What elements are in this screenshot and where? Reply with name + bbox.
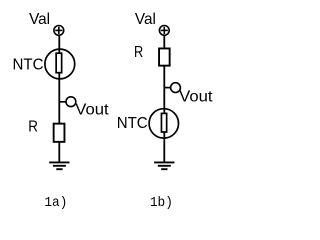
svg-text:Vout: Vout [75,102,109,119]
supply terminal + (circuit 1b) [159,26,169,36]
svg-text:R: R [28,119,38,136]
ground symbol (circuit 1b) [154,162,174,169]
svg-text:1a): 1a) [44,195,67,211]
supply terminal + (circuit 1a) [54,26,64,36]
wire NTC to resistor R with Vout junction (1a) [58,73,60,123]
thermistor NTC body rect (circuit 1b) [161,113,166,132]
svg-text:Val: Val [29,11,50,28]
svg-text:Val: Val [135,11,156,28]
svg-text:Vout: Vout [179,89,213,106]
resistor R body (circuit 1a) [54,124,65,142]
wire supply to NTC (1a) [58,36,60,54]
wire resistor to ground (1a) [58,143,60,163]
ground symbol (circuit 1a) [49,162,69,169]
Vout node circle (1a) [66,97,76,107]
wire resistor to NTC with Vout junction (1b) [163,66,165,114]
Vout stub wire (1b) [164,87,171,89]
thermistor NTC circle (circuit 1a) [45,49,75,79]
resistor R body (circuit 1b) [159,48,170,65]
thermistor NTC circle (circuit 1b) [149,109,178,138]
svg-text:R: R [134,44,143,61]
wire NTC to ground (1b) [163,132,165,162]
svg-text:NTC: NTC [13,57,44,74]
svg-text:1b): 1b) [150,195,173,211]
wire supply to resistor R (1b) [163,36,165,49]
thermistor NTC body rect (circuit 1a) [56,53,62,72]
Vout stub wire (1a) [59,101,66,103]
svg-text:NTC: NTC [117,115,148,132]
Vout node circle (1b) [171,83,181,93]
